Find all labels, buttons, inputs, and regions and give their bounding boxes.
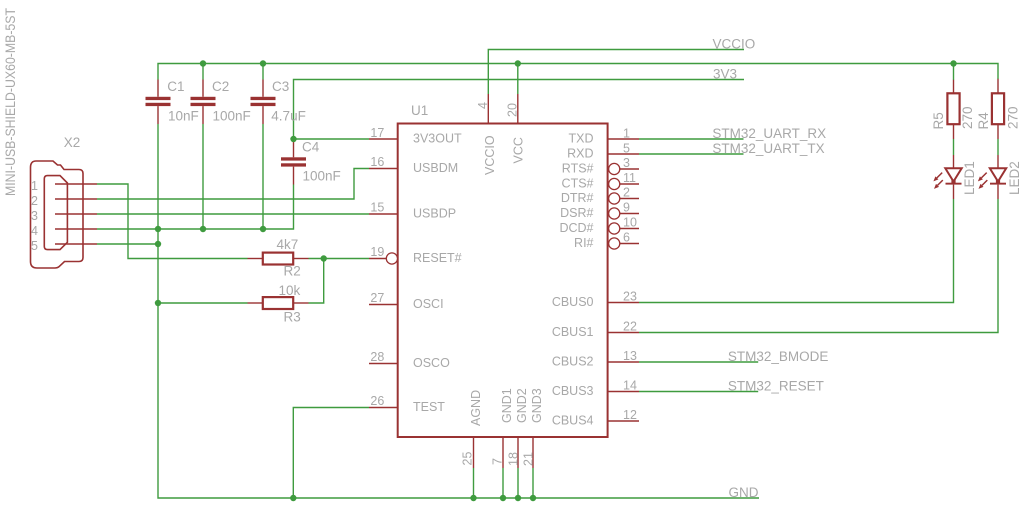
U1 pin 26 lead bbox=[369, 407, 398, 409]
svg-text:STM32_UART_RX: STM32_UART_RX bbox=[712, 126, 826, 141]
svg-text:22: 22 bbox=[623, 320, 637, 334]
capacitor C3 bbox=[251, 97, 276, 106]
svg-text:6: 6 bbox=[623, 231, 630, 245]
svg-text:3V3: 3V3 bbox=[713, 67, 737, 82]
resistor R3 bbox=[248, 302, 263, 304]
svg-text:LED2: LED2 bbox=[1007, 161, 1022, 195]
wire R3 left to GND bbox=[158, 302, 248, 304]
svg-text:CBUS4: CBUS4 bbox=[552, 414, 594, 428]
X2 pin 5 lead bbox=[55, 243, 97, 245]
svg-text:10nF: 10nF bbox=[168, 108, 199, 123]
wire CBUS1 to LED2 bbox=[639, 199, 998, 333]
svg-text:4.7uF: 4.7uF bbox=[271, 108, 306, 123]
wire GND vertical left bbox=[158, 229, 759, 498]
X2 pin 2 lead bbox=[55, 198, 97, 200]
svg-text:TEST: TEST bbox=[413, 400, 445, 414]
U1 pin 11 lead CTS# bbox=[609, 178, 620, 189]
wire VCCIO net bbox=[488, 50, 744, 95]
capacitor C1 bbox=[146, 97, 171, 106]
wire STM32_RESET bbox=[639, 391, 758, 393]
svg-text:TXD: TXD bbox=[569, 132, 594, 146]
svg-text:5: 5 bbox=[623, 141, 630, 155]
U1 pin 22 lead CBUS1 bbox=[608, 332, 639, 334]
U1 pin 7 lead GND1 bbox=[502, 437, 504, 468]
wire USB pin5 to GND bbox=[97, 243, 158, 245]
svg-text:OSCI: OSCI bbox=[413, 297, 444, 311]
svg-text:4k7: 4k7 bbox=[277, 237, 299, 252]
node AGND junction bbox=[470, 495, 476, 501]
svg-text:1: 1 bbox=[623, 126, 630, 140]
LED LED2 bbox=[978, 155, 1006, 199]
node GND2 junction bbox=[515, 495, 521, 501]
U1 pin 1 lead TXD bbox=[608, 138, 639, 140]
svg-text:MINI-USB-SHIELD-UX60-MB-5ST: MINI-USB-SHIELD-UX60-MB-5ST bbox=[3, 8, 18, 196]
svg-text:CBUS1: CBUS1 bbox=[552, 325, 594, 339]
wire R2 right to RESET# bbox=[309, 258, 370, 260]
op-amp U1 IC body bbox=[398, 124, 608, 438]
svg-text:RI#: RI# bbox=[574, 236, 594, 250]
svg-text:23: 23 bbox=[623, 290, 637, 304]
wire GND2 stub bbox=[517, 468, 519, 498]
svg-text:16: 16 bbox=[370, 155, 384, 169]
svg-text:VCCIO: VCCIO bbox=[483, 135, 497, 175]
node GND3 junction bbox=[530, 495, 536, 501]
connector X2 outer body bbox=[31, 161, 84, 268]
wire VCC pin20 stub bbox=[517, 64, 519, 95]
svg-text:GND2: GND2 bbox=[515, 388, 529, 423]
svg-text:4: 4 bbox=[476, 102, 490, 109]
U1 pin 28 lead bbox=[369, 363, 398, 365]
U1 pin 16 lead bbox=[369, 168, 398, 170]
svg-text:13: 13 bbox=[623, 349, 637, 363]
svg-text:R5: R5 bbox=[931, 112, 946, 129]
svg-text:RXD: RXD bbox=[567, 147, 593, 161]
U1 pin 14 lead CBUS3 bbox=[608, 391, 639, 393]
connector X2 inner shell bbox=[44, 176, 67, 250]
svg-text:VCCIO: VCCIO bbox=[713, 37, 756, 52]
svg-text:100nF: 100nF bbox=[303, 169, 341, 184]
U1 pin 4 lead VCCIO bbox=[487, 94, 489, 124]
svg-text:11: 11 bbox=[623, 171, 636, 185]
svg-text:270: 270 bbox=[960, 106, 975, 129]
svg-text:GND: GND bbox=[729, 485, 759, 500]
svg-text:X2: X2 bbox=[64, 135, 81, 150]
svg-text:AGND: AGND bbox=[469, 390, 483, 426]
X2 pin 3 lead bbox=[55, 213, 97, 215]
svg-text:3: 3 bbox=[623, 156, 630, 170]
node USB pin5 junction bbox=[155, 241, 161, 247]
svg-text:5: 5 bbox=[31, 239, 38, 253]
svg-text:C3: C3 bbox=[272, 79, 289, 94]
svg-text:2: 2 bbox=[31, 194, 38, 208]
U1 pin 2 lead DTR# bbox=[609, 193, 620, 204]
X2 pin 1 lead bbox=[55, 183, 97, 185]
U1 pin 12 lead CBUS4 bbox=[608, 420, 639, 422]
svg-text:9: 9 bbox=[623, 201, 630, 215]
resistor R5 bbox=[953, 80, 955, 94]
resistor R4 bbox=[997, 79, 999, 94]
wire USB pin4 to GND bbox=[97, 228, 158, 230]
svg-text:27: 27 bbox=[370, 291, 384, 305]
node GND rail C1 junction bbox=[155, 226, 161, 232]
U1 pin 17 lead bbox=[369, 138, 398, 140]
svg-text:STM32_RESET: STM32_RESET bbox=[728, 379, 824, 394]
svg-text:26: 26 bbox=[370, 394, 384, 408]
svg-text:15: 15 bbox=[370, 201, 384, 215]
svg-text:USBDM: USBDM bbox=[413, 161, 458, 175]
U1 pin 15 lead bbox=[369, 213, 398, 215]
svg-text:14: 14 bbox=[623, 379, 637, 393]
wire R3 branch bbox=[309, 259, 324, 304]
svg-text:2: 2 bbox=[623, 186, 630, 200]
node C2 top junction bbox=[200, 60, 206, 66]
svg-text:RESET#: RESET# bbox=[413, 251, 462, 265]
U1 pin 10 lead DCD# bbox=[609, 223, 620, 234]
capacitor C4 bbox=[281, 157, 306, 166]
U1 pin 23 lead CBUS0 bbox=[608, 302, 639, 304]
U1 pin 18 lead GND2 bbox=[517, 437, 519, 468]
svg-text:1: 1 bbox=[31, 179, 38, 193]
svg-text:LED1: LED1 bbox=[962, 161, 977, 195]
node R2/R3 RESET junction bbox=[321, 255, 327, 261]
wire R4 to LED2 bbox=[997, 139, 999, 155]
svg-text:U1: U1 bbox=[411, 103, 428, 118]
wire STM32_BMODE bbox=[639, 361, 758, 363]
svg-text:25: 25 bbox=[461, 452, 475, 466]
U1 pin 5 lead RXD bbox=[608, 153, 639, 155]
wire C3 bottom bbox=[262, 124, 264, 229]
svg-text:STM32_BMODE: STM32_BMODE bbox=[728, 349, 829, 364]
svg-text:C4: C4 bbox=[302, 139, 320, 154]
svg-text:3V3OUT: 3V3OUT bbox=[413, 132, 462, 146]
node VCC pin20 junction bbox=[515, 60, 521, 66]
wire VCC rail top bbox=[158, 64, 998, 80]
svg-text:20: 20 bbox=[506, 103, 520, 117]
U1 pin 20 lead VCC bbox=[517, 94, 519, 124]
wire R5 top stub bbox=[953, 64, 955, 81]
svg-text:GND1: GND1 bbox=[500, 388, 514, 423]
svg-text:3: 3 bbox=[31, 209, 38, 223]
svg-text:CBUS3: CBUS3 bbox=[552, 384, 594, 398]
svg-text:OSCO: OSCO bbox=[413, 356, 450, 370]
U1 pin 6 lead RI# bbox=[609, 238, 620, 249]
wire USB pin3 to USBDP bbox=[97, 213, 369, 215]
svg-text:DTR#: DTR# bbox=[561, 191, 594, 205]
capacitor C2 bbox=[191, 97, 216, 106]
X2 pin 4 lead bbox=[55, 228, 97, 230]
wire GND3 stub bbox=[532, 468, 534, 498]
node 3V3OUT/C4 junction bbox=[290, 136, 296, 142]
svg-text:VCC: VCC bbox=[512, 137, 526, 163]
svg-text:12: 12 bbox=[623, 408, 637, 422]
svg-text:STM32_UART_TX: STM32_UART_TX bbox=[712, 141, 824, 156]
wire C3 top stub bbox=[262, 64, 264, 80]
node R5 top junction bbox=[950, 60, 956, 66]
node GND rail C3 junction bbox=[260, 226, 266, 232]
svg-text:270: 270 bbox=[1006, 106, 1021, 129]
wire C2 top stub bbox=[202, 64, 204, 80]
svg-text:GND3: GND3 bbox=[530, 388, 544, 423]
wire STM32_UART_RX bbox=[639, 138, 744, 140]
U1 pin 13 lead CBUS2 bbox=[608, 361, 639, 363]
svg-text:R3: R3 bbox=[284, 310, 301, 325]
svg-text:7: 7 bbox=[491, 458, 505, 465]
svg-text:R4: R4 bbox=[976, 112, 991, 130]
svg-text:USBDP: USBDP bbox=[413, 207, 456, 221]
svg-text:R2: R2 bbox=[284, 264, 301, 279]
resistor R2 bbox=[248, 258, 263, 260]
wire USB pin1 to R2 bbox=[97, 184, 248, 259]
svg-text:RTS#: RTS# bbox=[562, 162, 594, 176]
svg-text:CBUS2: CBUS2 bbox=[552, 355, 594, 369]
svg-text:17: 17 bbox=[370, 126, 384, 140]
svg-text:18: 18 bbox=[507, 452, 521, 466]
wire GND1 stub bbox=[502, 468, 504, 498]
wire R5 to LED1 bbox=[953, 139, 955, 155]
wire CBUS0 to LED1 bbox=[639, 199, 954, 303]
wire C2 bottom bbox=[202, 124, 204, 229]
svg-text:10k: 10k bbox=[279, 283, 301, 298]
svg-text:10: 10 bbox=[623, 216, 637, 230]
svg-text:19: 19 bbox=[370, 245, 384, 259]
node TEST GND junction bbox=[290, 495, 296, 501]
U1 pin 25 lead AGND bbox=[473, 437, 475, 468]
U1 pin 21 lead GND3 bbox=[532, 437, 534, 468]
node GND1 junction bbox=[500, 495, 506, 501]
svg-text:100nF: 100nF bbox=[213, 108, 251, 123]
node GND rail C2 junction bbox=[200, 226, 206, 232]
wire STM32_UART_TX bbox=[639, 153, 744, 155]
svg-text:21: 21 bbox=[522, 452, 536, 466]
wire C4 bottom to rail bbox=[158, 185, 294, 230]
svg-text:DCD#: DCD# bbox=[559, 221, 593, 235]
wire USB pin2 to USBDM bbox=[97, 169, 369, 200]
wire C1 bottom to GND rail bbox=[157, 124, 159, 229]
LED LED1 bbox=[933, 155, 961, 199]
svg-text:DSR#: DSR# bbox=[560, 206, 593, 220]
U1 pin 9 lead DSR# bbox=[609, 208, 620, 219]
U1 pin 27 lead bbox=[369, 304, 398, 306]
U1 pin 19 lead RESET# bbox=[369, 258, 386, 260]
node C3 top junction bbox=[260, 60, 266, 66]
wire TEST to GND bbox=[293, 408, 369, 499]
svg-text:C2: C2 bbox=[212, 79, 229, 94]
svg-text:CTS#: CTS# bbox=[562, 177, 594, 191]
svg-text:C1: C1 bbox=[167, 79, 184, 94]
wire 3V3 net bbox=[294, 80, 745, 140]
wire AGND stub bbox=[473, 468, 475, 498]
svg-text:28: 28 bbox=[370, 350, 384, 364]
node R3 GND junction bbox=[155, 300, 161, 306]
U1 pin 3 lead RTS# bbox=[609, 163, 620, 174]
svg-text:4: 4 bbox=[31, 224, 38, 238]
svg-text:CBUS0: CBUS0 bbox=[552, 295, 594, 309]
